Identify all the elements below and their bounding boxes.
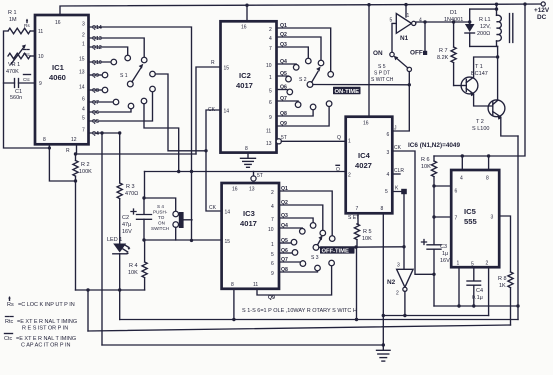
- rotary switch S2: [286, 58, 334, 109]
- svg-text:10K: 10K: [128, 270, 138, 276]
- svg-text:R 6: R 6: [421, 157, 430, 163]
- svg-text:R 3: R 3: [126, 184, 135, 190]
- wire ground line G1: [434, 305, 518, 307]
- svg-text:T 2: T 2: [476, 119, 484, 125]
- wire clock vertical IC2 pin14 to IC3 pin14: [206, 110, 222, 211]
- wire IC4 CK line to right: [392, 151, 434, 274]
- svg-text:3: 3: [491, 215, 494, 221]
- svg-text:Q7: Q7: [280, 96, 287, 102]
- svg-text:16: 16: [232, 187, 238, 193]
- svg-text:10: 10: [268, 227, 274, 233]
- svg-text:R 2: R 2: [81, 162, 90, 168]
- resistor R4 10K: [128, 262, 147, 278]
- svg-text:N2: N2: [387, 279, 396, 286]
- svg-text:Q6: Q6: [92, 110, 99, 116]
- svg-text:8.2K: 8.2K: [437, 55, 449, 61]
- svg-text:2: 2: [82, 33, 85, 39]
- svg-text:R E S IST OR P IN: R E S IST OR P IN: [22, 326, 68, 332]
- svg-text:1: 1: [407, 13, 410, 19]
- wire VR1 to IC1 pin 10: [30, 55, 35, 57]
- wire Q10 to S1 contact: [89, 61, 112, 63]
- wire Q5 to S2 contact: [277, 75, 289, 77]
- label ON-TIME: [333, 87, 361, 95]
- svg-text:10K: 10K: [362, 236, 372, 242]
- capacitor C2 47u 16V: [122, 198, 152, 240]
- svg-text:5T: 5T: [257, 173, 263, 179]
- svg-text:16V: 16V: [122, 229, 132, 235]
- svg-text:47μ: 47μ: [122, 222, 131, 228]
- svg-text:560n: 560n: [10, 95, 22, 101]
- wire Q3 to S3 contact: [279, 218, 313, 223]
- label OFF-TIME: [320, 246, 355, 254]
- svg-text:Q8: Q8: [92, 88, 99, 94]
- svg-text:Q4: Q4: [92, 131, 99, 137]
- wire IC3 pin11 Q9 to S3 contact: [257, 266, 332, 295]
- resistor R1 1M: [8, 10, 30, 34]
- svg-text:IC1: IC1: [52, 63, 65, 72]
- resistor R7 8.2K: [437, 22, 456, 86]
- svg-text:10: 10: [38, 54, 44, 60]
- svg-text:5: 5: [385, 189, 388, 195]
- svg-text:2: 2: [269, 27, 272, 33]
- svg-text:ON: ON: [373, 50, 383, 57]
- label legend Rtc: [5, 317, 77, 332]
- wire IC4 K to N2 input: [392, 192, 404, 270]
- svg-text:2: 2: [486, 261, 489, 267]
- capacitor C1 560n: [4, 79, 36, 102]
- wire relay top to bus: [496, 4, 498, 9]
- svg-text:1K: 1K: [499, 283, 506, 289]
- wire Q2 to S2 contact: [277, 37, 322, 60]
- svg-text:Q3: Q3: [280, 42, 287, 48]
- svg-text:Ctc: Ctc: [23, 77, 31, 82]
- wire N1 pin1 to bus: [405, 5, 407, 17]
- resistor R5 10K: [354, 224, 372, 247]
- wire bus right corner down to +12V feed: [434, 4, 525, 156]
- label Q outputs of IC2: [280, 23, 287, 127]
- wire R2 bottom down to cathode rail: [75, 181, 77, 290]
- wire N1 output line: [416, 22, 470, 23]
- svg-text:0.1μ: 0.1μ: [472, 295, 483, 301]
- wire Q8 to S2 contact: [277, 110, 314, 116]
- svg-text:Q3: Q3: [281, 213, 288, 219]
- wire Q1 to S2 contact: [277, 28, 331, 72]
- svg-text:13: 13: [79, 70, 85, 76]
- wire cathode rail y290: [76, 289, 145, 291]
- svg-text:TO: TO: [158, 215, 165, 220]
- wire IC2 pin16 to bus: [246, 5, 248, 21]
- wire S5 OFF contact up to N1 output: [424, 22, 426, 51]
- capacitor C4 0.1u: [467, 267, 483, 306]
- svg-text:16: 16: [241, 25, 247, 31]
- IC IC5 555: [451, 170, 499, 268]
- svg-text:6: 6: [269, 100, 272, 106]
- svg-text:Rtc: Rtc: [5, 319, 14, 325]
- wire S1 contact jog down to ST line: [144, 104, 179, 172]
- wire IC3 pin8 down to bus A: [233, 289, 235, 320]
- svg-text:4: 4: [387, 172, 390, 178]
- svg-text:D1: D1: [450, 10, 457, 16]
- svg-text:4027: 4027: [355, 161, 372, 170]
- wire +12V supply bus: [60, 4, 544, 15]
- svg-text:4: 4: [460, 176, 463, 182]
- svg-text:6: 6: [271, 261, 274, 267]
- wire Q4 column down: [101, 133, 103, 345]
- wire Q7 to S3 contact: [279, 261, 303, 262]
- svg-text:R: R: [211, 60, 215, 66]
- wire Q5 to S1 contact: [89, 92, 153, 121]
- node +12V DC terminal: [534, 2, 550, 21]
- wire Q3 to S2 contact: [277, 47, 309, 58]
- svg-text:1: 1: [271, 242, 274, 248]
- svg-text:IC3: IC3: [243, 209, 255, 218]
- wire IC4 pin8 down to ground line: [382, 213, 384, 315]
- svg-text:6: 6: [387, 132, 390, 138]
- svg-text:C4: C4: [476, 288, 483, 294]
- wire S1 contact to clock line: [155, 74, 206, 151]
- svg-text:3: 3: [82, 22, 85, 28]
- svg-text:200Ω: 200Ω: [477, 31, 490, 37]
- svg-text:Q10: Q10: [92, 60, 102, 66]
- svg-text:R 7: R 7: [439, 48, 448, 54]
- svg-text:C3: C3: [440, 244, 447, 250]
- svg-text:13: 13: [266, 141, 272, 147]
- svg-text:4017: 4017: [240, 219, 257, 228]
- svg-text:Q7: Q7: [281, 257, 288, 263]
- wire IC5 pin1 to ground line: [458, 267, 460, 306]
- svg-text:=C LOC K INP UT P IN: =C LOC K INP UT P IN: [18, 302, 75, 308]
- svg-text:R 4: R 4: [129, 263, 138, 269]
- svg-text:IC6 (N1,N2)=4049: IC6 (N1,N2)=4049: [408, 142, 460, 149]
- wire S5 pole down to IC4 J: [392, 72, 409, 131]
- svg-text:12V,: 12V,: [480, 24, 491, 30]
- svg-text:100K: 100K: [79, 169, 92, 175]
- wire Q7 to S1 contact: [89, 101, 114, 103]
- svg-text:T 1: T 1: [475, 64, 483, 70]
- wire R6 tap to IC5 pin7: [434, 216, 451, 218]
- wire R5 bottom to bus A: [356, 247, 358, 319]
- svg-text:5: 5: [82, 116, 85, 122]
- svg-text:S P DT: S P DT: [374, 71, 390, 77]
- svg-text:470K: 470K: [6, 69, 19, 75]
- svg-text:S 4: S 4: [157, 204, 164, 209]
- wire Q7 to S2 contact: [277, 100, 299, 103]
- relay RL1 12V 200ohm: [470, 7, 513, 46]
- svg-text:13: 13: [249, 187, 255, 193]
- ground below IC2: [241, 158, 256, 167]
- wire IC2 pin15 R vertical: [196, 67, 221, 154]
- wire N1 input from S5 ON contact: [392, 23, 396, 52]
- resistor R2 100K: [73, 152, 92, 182]
- IC IC3 4017: [222, 183, 279, 289]
- svg-text:4060: 4060: [49, 73, 66, 82]
- svg-text:ON: ON: [158, 221, 165, 226]
- svg-text:OFF: OFF: [410, 50, 423, 57]
- svg-text:Q2: Q2: [280, 32, 287, 38]
- resistor R6 10K: [421, 156, 437, 245]
- svg-text:Rtc: Rtc: [23, 52, 31, 57]
- svg-text:7: 7: [356, 206, 359, 212]
- svg-text:N1: N1: [400, 35, 409, 42]
- svg-text:Q9: Q9: [268, 295, 275, 301]
- wire ST to IC4 pin1: [281, 140, 345, 142]
- svg-text:7: 7: [271, 217, 274, 223]
- inverter N2 4049: [387, 263, 413, 297]
- svg-text:=E XT E R NAL T IMING: =E XT E R NAL T IMING: [16, 336, 76, 342]
- svg-text:14: 14: [225, 210, 231, 216]
- svg-text:Q14: Q14: [92, 25, 102, 31]
- node VDD junction dots on bus: [245, 2, 526, 7]
- wire +12V feed to IC5 pins 4 and 8: [462, 156, 488, 170]
- IC IC4 4027: [346, 117, 393, 214]
- wire bottom line to ground stem: [102, 344, 383, 346]
- capacitor C3 1u 16V: [422, 240, 451, 307]
- wire IC4 pin16 to bus: [368, 5, 370, 117]
- svg-text:Q5: Q5: [92, 119, 99, 125]
- svg-text:Rs: Rs: [7, 302, 14, 308]
- wire IC1 pin8 down: [49, 144, 75, 181]
- wire bottom bus B: [88, 325, 511, 331]
- wire Q4 to S3 contact: [279, 227, 302, 230]
- svg-text:CK: CK: [209, 205, 217, 211]
- wire Q4 long output: [89, 132, 120, 134]
- svg-text:+12V: +12V: [534, 7, 550, 14]
- svg-text:8: 8: [381, 206, 384, 212]
- svg-text:16: 16: [55, 20, 61, 26]
- svg-text:VR 1: VR 1: [8, 62, 20, 68]
- wire Q9 to S2 contact: [277, 107, 330, 127]
- svg-text:S 3: S 3: [311, 255, 319, 261]
- wire Q8 to S1 contact: [89, 89, 103, 91]
- svg-text:8: 8: [43, 137, 46, 143]
- svg-text:IC2: IC2: [239, 71, 251, 80]
- wire IC4 SET pin7 to R5: [357, 213, 359, 224]
- svg-text:S WIT CH: S WIT CH: [371, 77, 394, 83]
- wire Q4 to S2 contact: [277, 63, 297, 66]
- svg-text:9: 9: [271, 271, 274, 277]
- svg-text:11: 11: [38, 29, 43, 35]
- svg-text:8: 8: [231, 282, 234, 288]
- svg-text:15: 15: [225, 239, 231, 245]
- svg-text:OFF-TIME: OFF-TIME: [322, 248, 350, 254]
- svg-text:14: 14: [224, 109, 230, 115]
- svg-text:7: 7: [269, 46, 272, 52]
- switch S5 SPDT: [371, 50, 427, 84]
- svg-text:Q6: Q6: [281, 248, 288, 254]
- svg-text:2: 2: [396, 291, 399, 297]
- label Q outputs of IC1: [92, 25, 102, 137]
- wire Q12 to S1 contact: [89, 47, 128, 55]
- wire ground line G2: [383, 315, 488, 317]
- svg-text:BC147: BC147: [471, 71, 488, 77]
- wire reset line to IC3 pin15: [144, 239, 222, 241]
- svg-text:5: 5: [269, 89, 272, 95]
- wire R4 leads: [144, 240, 146, 290]
- svg-text:Rs: Rs: [24, 23, 30, 28]
- svg-text:LED 1: LED 1: [107, 237, 122, 243]
- svg-text:S 2: S 2: [299, 77, 307, 83]
- label Qbar of IC4 pin2: [336, 165, 340, 173]
- svg-text:CLR: CLR: [394, 168, 404, 174]
- svg-text:4: 4: [269, 36, 272, 42]
- svg-text:S L100: S L100: [472, 126, 489, 132]
- resistor R8 1K: [498, 272, 513, 325]
- wire Q9 to S1 contact: [89, 74, 103, 76]
- svg-text:7: 7: [82, 128, 85, 134]
- svg-text:Q12: Q12: [92, 45, 102, 51]
- transistor T2 SL100: [472, 46, 518, 136]
- wire Q6 to S3 contact: [279, 252, 292, 254]
- svg-text:S ET: S ET: [348, 215, 359, 221]
- wire R3 to LED1: [119, 199, 121, 243]
- svg-text:Q9: Q9: [280, 121, 287, 127]
- svg-text:Q5: Q5: [280, 71, 287, 77]
- wire S3 rotor to R5 and N2 line: [319, 246, 404, 249]
- svg-text:Ctc: Ctc: [4, 336, 13, 342]
- svg-text:Q7: Q7: [92, 100, 99, 106]
- svg-text:12: 12: [71, 137, 77, 143]
- svg-text:Q8: Q8: [281, 267, 288, 273]
- wire R net horizontal to IC2 pin15 drop: [76, 153, 197, 155]
- svg-text:11: 11: [266, 129, 271, 135]
- diode D1 1N4001: [444, 9, 475, 46]
- svg-text:Q: Q: [337, 135, 341, 141]
- wire IC5 pin3 to R8: [499, 216, 510, 272]
- svg-text:C2: C2: [122, 215, 129, 221]
- svg-text:IC4: IC4: [358, 151, 371, 160]
- wire left rail joining R1 VR1 C1: [4, 31, 50, 148]
- wire H2 corner down to S4 junction: [144, 172, 146, 199]
- wire R3 top from Q4 line: [119, 133, 121, 183]
- IC IC1 4060: [35, 15, 89, 144]
- svg-text:Q6: Q6: [280, 85, 287, 91]
- svg-text:R L1: R L1: [479, 17, 491, 23]
- svg-text:S 1: S 1: [120, 73, 128, 79]
- wire IC2 pin8 to ground: [247, 153, 249, 158]
- svg-text:9: 9: [269, 115, 272, 121]
- node Rtc marker: [23, 50, 31, 58]
- svg-text:470Ω: 470Ω: [125, 191, 138, 197]
- wire T2 emitter down right side: [517, 136, 519, 320]
- svg-text:1: 1: [269, 75, 272, 81]
- wire Q14 output long descent: [89, 27, 192, 240]
- LED LED1: [107, 237, 131, 255]
- svg-text:C AP AC IT OR P IN: C AP AC IT OR P IN: [21, 343, 71, 349]
- svg-text:16: 16: [363, 121, 369, 127]
- wire IC5 pin2 down to line: [488, 267, 490, 315]
- svg-text:R: R: [66, 148, 70, 154]
- wire IC1 pin12 to R node: [76, 144, 77, 154]
- node ST terminal of IC3 pin13: [251, 173, 263, 181]
- wire LED1 down to bus: [119, 254, 121, 320]
- transistor T1 BC147: [454, 57, 498, 106]
- svg-text:Q8: Q8: [280, 111, 287, 117]
- svg-text:1μ: 1μ: [442, 251, 448, 257]
- svg-text:6: 6: [82, 97, 85, 103]
- rotary switch S3: [291, 223, 335, 271]
- svg-text:Q: Q: [336, 167, 340, 173]
- svg-text:8: 8: [245, 146, 248, 152]
- ground main symbol: [377, 316, 391, 362]
- svg-text:8: 8: [486, 176, 489, 182]
- svg-text:5: 5: [271, 252, 274, 258]
- IC IC2 4017: [221, 21, 277, 152]
- wire Q8 to S3 contact: [279, 271, 318, 272]
- svg-text:4017: 4017: [236, 81, 253, 90]
- label Q outputs of IC3: [281, 186, 288, 273]
- wire Q1 to S3 contact: [279, 191, 332, 236]
- svg-text:Q4: Q4: [281, 223, 288, 229]
- wire R6 tap to IC5 pin6: [434, 185, 451, 187]
- wire N2 output to ground line: [404, 291, 406, 315]
- wire Q6 to S1 contact: [89, 109, 132, 112]
- svg-text:1: 1: [457, 261, 460, 267]
- svg-text:5: 5: [390, 18, 393, 24]
- svg-text:15: 15: [224, 66, 230, 72]
- svg-text:CK: CK: [394, 145, 402, 151]
- svg-text:14: 14: [79, 85, 85, 91]
- node K square junction: [401, 189, 407, 194]
- svg-text:PUSH-: PUSH-: [153, 210, 168, 215]
- svg-text:555: 555: [464, 217, 477, 226]
- switch S4 push-to-on: [142, 196, 192, 241]
- resistor R3 470ohm: [117, 183, 138, 199]
- svg-text:IC5: IC5: [464, 207, 477, 216]
- wire Q2 to S3 contact: [279, 205, 323, 230]
- wire Q5 to S3 contact: [279, 242, 291, 244]
- svg-text:S 1-S 6=1 P OLE ,10WAY R OTARY: S 1-S 6=1 P OLE ,10WAY R OTARY S WITC H: [242, 308, 357, 314]
- wire Q6 to S2 contact: [277, 89, 288, 91]
- svg-text:Q5: Q5: [281, 238, 288, 244]
- svg-text:2: 2: [348, 173, 351, 179]
- svg-text:4: 4: [82, 107, 85, 113]
- svg-text:R 1: R 1: [8, 10, 17, 16]
- wire ST IC3 to IC4 pin2: [253, 172, 255, 176]
- wire IC4 CLR stub: [392, 173, 400, 175]
- svg-text:16V: 16V: [440, 258, 450, 264]
- svg-text:7: 7: [455, 216, 458, 222]
- svg-text:15: 15: [79, 57, 85, 63]
- svg-text:R 5: R 5: [363, 229, 372, 235]
- node ST terminal of IC2 pin13: [276, 135, 287, 144]
- svg-text:DC: DC: [537, 14, 547, 21]
- rotary switch S1: [102, 55, 155, 109]
- svg-text:Q9: Q9: [92, 73, 99, 79]
- wire riser to bottom bus B: [87, 290, 89, 331]
- svg-text:ON-TIME: ON-TIME: [335, 89, 360, 95]
- svg-text:9: 9: [39, 81, 42, 87]
- svg-text:R 8: R 8: [498, 276, 507, 282]
- label legend Ctc: [4, 334, 76, 349]
- svg-text:2: 2: [271, 190, 274, 196]
- svg-text:Q4: Q4: [280, 59, 287, 65]
- svg-text:SWITCH: SWITCH: [151, 226, 169, 231]
- label legend Rs clock input: [7, 296, 75, 308]
- svg-text:Q1: Q1: [280, 23, 287, 29]
- svg-text:1: 1: [348, 139, 351, 145]
- svg-text:5T: 5T: [281, 135, 287, 141]
- wire bottom bus A: [120, 319, 518, 321]
- inverter N1 4049: [390, 13, 423, 42]
- svg-text:1M: 1M: [9, 17, 17, 23]
- svg-text:S 5: S 5: [378, 64, 386, 70]
- svg-text:1: 1: [82, 42, 85, 48]
- svg-text:3: 3: [397, 263, 400, 269]
- wire R1 to IC1 pin 11: [30, 30, 35, 32]
- wire Q13 to S1 contact: [89, 38, 145, 57]
- svg-text:4: 4: [271, 204, 274, 210]
- svg-text:11: 11: [253, 282, 258, 288]
